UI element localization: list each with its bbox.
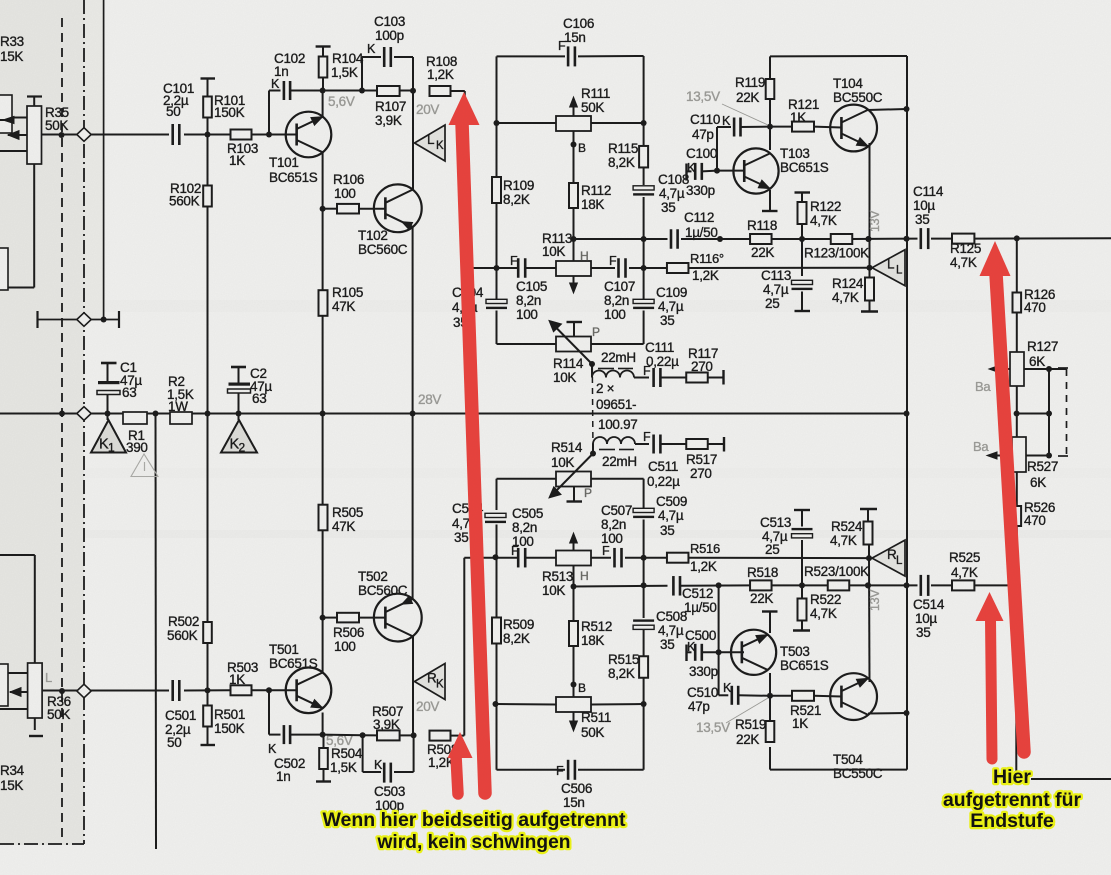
node B top [571,141,587,155]
svg-text:Ba: Ba [975,379,991,394]
label 5.6V bottom [326,733,353,748]
svg-text:C512: C512 [682,586,713,601]
wire T501 collector [320,713,326,738]
svg-text:T102: T102 [358,228,388,243]
svg-text:4,7K: 4,7K [830,533,857,548]
svg-text:C112: C112 [684,210,714,225]
resistor R123 [804,234,869,261]
wire T103 collector [769,127,771,150]
svg-text:330p: 330p [689,664,718,679]
svg-text:BC560C: BC560C [358,583,408,598]
svg-text:0,22µ: 0,22µ [646,354,679,369]
label 13V top [868,210,882,232]
capacitor C501 [165,680,196,750]
svg-text:R523/100K: R523/100K [804,564,869,579]
svg-text:10K: 10K [553,370,576,385]
svg-text:R522: R522 [810,592,841,607]
inductor L2 22mH [593,437,637,469]
svg-text:15n: 15n [564,30,586,45]
svg-text:100.97: 100.97 [598,417,638,432]
resistor R519 [735,693,774,747]
svg-text:100: 100 [604,307,626,322]
svg-text:BC550C: BC550C [833,90,883,105]
svg-text:8,2K: 8,2K [608,666,635,681]
svg-text:4,7K: 4,7K [832,290,859,305]
capacitor C503 [363,735,414,813]
node diamond bottom input [77,684,91,698]
resistor R33 partial box [0,95,14,133]
capacitor C510 [687,585,770,714]
resistor R521 [770,691,842,731]
resistor R102 [169,135,212,414]
svg-text:T503: T503 [780,644,810,659]
wire left dash-dot boundary [0,0,84,844]
svg-text:10K: 10K [542,583,565,598]
svg-text:C505: C505 [512,506,543,521]
svg-text:100: 100 [334,639,356,654]
resistor R117 [686,346,723,385]
svg-text:C105: C105 [516,279,547,294]
wire top input net [42,132,297,139]
potentiometer R513 [542,533,591,598]
capacitor C502 [268,690,323,784]
label transformer id [596,381,638,432]
wire R122-C113 link [801,239,803,276]
node diamond 28V [77,407,91,421]
annotation red arrow right long [980,241,1025,752]
bracket dashed [1058,368,1068,456]
svg-text:L: L [45,670,52,685]
potentiometer R527 [987,437,1058,490]
svg-text:22mH: 22mH [602,454,637,469]
svg-text:22K: 22K [751,245,774,260]
svg-text:22mH: 22mH [601,350,636,365]
svg-text:K: K [687,161,696,175]
junction coil bottom [590,451,596,457]
capacitor C507s [601,503,632,567]
svg-text:100: 100 [512,534,534,549]
transistor T501 [269,642,331,713]
svg-text:4,7K: 4,7K [951,565,978,580]
svg-text:50K: 50K [45,118,68,133]
svg-text:C110: C110 [690,112,720,127]
wire dashed coupling [591,366,594,452]
svg-text:aufgetrennt für: aufgetrennt für [943,789,1081,811]
svg-text:C103: C103 [374,14,405,29]
wire ground stub [155,414,158,850]
svg-text:100: 100 [334,186,356,201]
wire bottom loop right [770,710,910,770]
resistor R524 [830,509,877,558]
svg-text:R514: R514 [551,440,583,455]
node B bottom [571,681,587,695]
svg-text:K: K [722,114,731,128]
svg-text:R111: R111 [581,86,610,101]
svg-text:C114: C114 [913,184,944,199]
svg-text:R118: R118 [747,218,777,233]
resistor R505 [319,505,364,534]
svg-text:8,2K: 8,2K [503,631,530,646]
wire 28V rail [0,411,1020,417]
svg-text:F: F [510,254,518,268]
svg-text:R506: R506 [333,625,364,640]
resistor R517 [686,437,724,481]
svg-text:22K: 22K [750,591,773,606]
svg-text:13V: 13V [868,589,882,611]
svg-text:T501: T501 [269,642,299,657]
svg-text:Wenn hier beidseitig aufgetren: Wenn hier beidseitig aufgetrennt [323,809,626,831]
svg-text:1,2K: 1,2K [690,559,717,574]
svg-text:BC651S: BC651S [780,160,829,175]
svg-text:C501: C501 [165,708,196,723]
svg-text:6K: 6K [1030,475,1046,490]
svg-text:13,5V: 13,5V [686,89,720,104]
svg-text:T104: T104 [833,76,863,91]
capacitor C103 [362,14,413,91]
capacitor C514 [913,575,945,640]
svg-text:330p: 330p [686,183,715,198]
wire vertical bus x104 [103,0,105,320]
wire P loop top [497,343,644,345]
capacitor C500 [685,628,719,679]
svg-text:K: K [723,681,732,695]
resistor R104 [316,47,364,91]
svg-text:wird, kein schwingen: wird, kein schwingen [377,831,571,853]
potentiometer R514 [549,440,593,502]
transistor T101 [269,112,331,185]
marker RL [872,540,905,576]
svg-text:4,7K: 4,7K [950,255,977,270]
resistor R512 [569,587,612,685]
wire T503 emitter [762,612,778,634]
svg-text:Hier: Hier [993,766,1031,788]
resistor R2 [167,374,194,424]
svg-text:1,5K: 1,5K [331,65,358,80]
svg-text:1µ/50: 1µ/50 [685,225,718,240]
resistor R119 [735,75,774,130]
svg-text:C503: C503 [374,784,405,799]
wire T501 emitter [320,414,326,674]
svg-text:35: 35 [661,200,675,215]
svg-text:150K: 150K [214,105,245,120]
label Ba top [975,379,991,394]
wire 5.6V node [323,88,416,94]
svg-text:R112: R112 [581,183,611,198]
marker LK [415,125,446,161]
transistor T502 [358,569,422,641]
svg-text:63: 63 [252,391,266,406]
svg-text:R124: R124 [832,276,864,291]
capacitor C108 [633,172,689,271]
label 13.5V bottom [696,698,768,735]
svg-text:22K: 22K [736,732,759,747]
wire C106 loop [494,56,647,126]
svg-text:35: 35 [454,530,468,545]
svg-text:BC651S: BC651S [269,170,318,185]
svg-text:K: K [271,77,280,91]
svg-text:47K: 47K [332,299,355,314]
svg-text:C510: C510 [687,685,718,700]
resistor R503 [227,660,258,695]
label R34 [0,763,25,793]
svg-text:C100: C100 [686,146,717,161]
wire T504 emitter [865,558,871,682]
label 13V bottom [868,589,882,611]
svg-text:100: 100 [516,307,538,322]
resistor R126 [1013,238,1056,352]
svg-text:F: F [609,254,617,268]
wire T102 emitter [410,226,416,417]
svg-text:F: F [602,544,610,558]
svg-text:R518: R518 [747,565,778,580]
resistor R116 [667,251,724,283]
capacitor C104 [452,268,507,344]
svg-text:R501: R501 [214,707,245,722]
svg-text:K: K [436,140,444,152]
capacitor C1 [97,360,142,414]
svg-text:2 ×: 2 × [596,381,614,396]
svg-text:22K: 22K [736,90,759,105]
svg-text:R114: R114 [553,356,584,371]
resistor R109 [492,123,534,268]
capacitor C105 [510,254,547,322]
svg-text:Endstufe: Endstufe [970,810,1054,832]
resistor R518 [747,565,778,606]
svg-text:R105: R105 [332,285,363,300]
svg-text:R125: R125 [950,241,981,256]
capacitor C102 [269,51,323,135]
label R33 [0,34,24,64]
marker K1 [91,414,126,455]
svg-text:R104: R104 [332,51,364,66]
svg-text:BC651S: BC651S [780,658,829,673]
svg-text:4,7K: 4,7K [810,606,837,621]
wire B loop bottom [497,703,644,706]
wire T102 collector [412,91,414,190]
svg-text:10K: 10K [542,244,565,259]
resistor R34 partial box [0,664,8,706]
resistor R526 [1013,472,1056,585]
wire T502 collector [412,636,414,736]
svg-text:K: K [367,42,376,56]
capacitor C112 [670,210,718,249]
resistor R515 [608,630,648,704]
svg-text:15K: 15K [0,778,23,793]
resistor R507 [372,704,403,740]
svg-text:R119: R119 [735,75,765,90]
svg-text:C514: C514 [913,597,945,612]
svg-text:10K: 10K [551,455,574,470]
svg-text:T504: T504 [833,752,863,767]
svg-text:C108: C108 [658,172,689,187]
resistor R108 [426,54,457,96]
label 13.5V top [686,89,768,125]
svg-text:3,9K: 3,9K [375,113,402,128]
svg-text:270: 270 [690,466,712,481]
svg-text:BC651S: BC651S [269,656,318,671]
resistor R516 [667,541,720,574]
wire T104 emitter [866,143,872,268]
resistor R106 [323,172,386,214]
svg-text:18K: 18K [581,197,604,212]
svg-text:5,6V: 5,6V [328,94,355,109]
svg-text:R107: R107 [375,99,406,114]
svg-text:R123/100K: R123/100K [804,246,869,261]
svg-text:H: H [580,569,588,583]
resistor R522 [793,585,841,630]
svg-text:R527: R527 [1027,459,1058,474]
svg-text:C506: C506 [561,781,592,796]
capacitor C511 [635,430,686,489]
svg-text:35: 35 [916,625,930,640]
svg-text:09651-: 09651- [596,397,636,412]
svg-text:35: 35 [915,212,929,227]
svg-text:R517: R517 [686,452,717,467]
svg-text:C106: C106 [563,16,594,31]
inductor L1 22mH [592,350,636,378]
resistor R509 [492,557,534,704]
wire top loop right [770,56,910,112]
capacitor C513 [760,510,813,557]
wire rail1 bottom [571,582,1020,589]
svg-text:20V: 20V [416,102,439,117]
resistor R33 lower partial box [0,248,8,290]
svg-text:4,7µ: 4,7µ [658,508,684,523]
annotation yellow text left [323,809,626,853]
svg-text:R502: R502 [168,614,199,629]
svg-text:47p: 47p [688,699,710,714]
svg-text:1µ/50: 1µ/50 [684,600,717,615]
wire R127 to bracket [1017,369,1067,455]
svg-text:R513: R513 [542,569,573,584]
svg-text:R524: R524 [831,519,863,534]
resistor R107 [375,86,406,128]
warning triangle [131,454,158,477]
wire T503 base node [716,649,744,655]
capacitor C109 [633,268,687,344]
label 20V top [416,102,439,117]
potentiometer R36 [0,555,71,736]
svg-text:3,9K: 3,9K [373,717,400,732]
svg-text:T103: T103 [780,146,810,161]
svg-text:1,5K: 1,5K [330,760,357,775]
resistor R506 [323,613,386,654]
wire H rail bottom [464,554,872,561]
svg-text:2: 2 [239,441,246,455]
wire T502 emitter [412,414,414,601]
svg-text:13V: 13V [868,210,882,232]
svg-text:390: 390 [126,440,148,455]
svg-text:R509: R509 [503,617,534,632]
svg-text:560K: 560K [169,194,200,209]
capacitor C512 [672,576,716,615]
svg-text:47K: 47K [332,519,355,534]
svg-text:C109: C109 [656,285,687,300]
svg-text:R504: R504 [331,746,363,761]
svg-text:R115: R115 [608,141,638,156]
capacitor C508 [633,555,687,652]
svg-text:R122: R122 [810,199,841,214]
node diamond top input [77,128,91,142]
svg-text:10µ: 10µ [913,198,935,213]
capacitor C505s [511,506,543,567]
wire T101 emitter [320,152,326,417]
svg-text:1,2K: 1,2K [692,268,719,283]
svg-text:R33: R33 [0,34,24,49]
svg-text:R109: R109 [503,178,534,193]
svg-text:560K: 560K [167,628,198,643]
wire 5.6V node bottom [323,732,417,738]
svg-text:8,2n: 8,2n [604,293,629,308]
svg-text:C513: C513 [760,515,791,530]
wire T101 collector [320,88,326,118]
wire T503 collector [769,673,771,696]
svg-text:8,2n: 8,2n [512,520,537,535]
resistor R502 [167,414,212,691]
svg-text:T502: T502 [358,569,388,584]
svg-text:50K: 50K [581,100,604,115]
junction coil top [589,361,595,367]
resistor R101 [201,79,246,135]
potentiometer R35 [0,97,69,288]
wire T104 collector [868,109,907,110]
potentiometer R511 [556,685,611,741]
capacitor C107 [604,254,635,322]
svg-text:50: 50 [167,735,181,750]
label 5.6V top [328,94,355,109]
svg-text:R512: R512 [581,619,612,634]
svg-text:R34: R34 [0,763,25,778]
svg-text:R116°: R116° [690,251,724,266]
svg-text:35: 35 [660,523,674,538]
svg-text:BC560C: BC560C [358,242,408,257]
svg-text:H: H [580,249,588,263]
svg-text:C507: C507 [601,503,632,518]
transistor T104 [830,76,883,151]
svg-text:P: P [592,325,600,339]
capacitor C111 [634,340,686,387]
svg-text:100p: 100p [375,28,404,43]
wire big vertical [906,109,908,770]
svg-text:150K: 150K [214,721,245,736]
wire C506 loop [493,701,647,770]
svg-text:63: 63 [122,385,136,400]
svg-text:8,2n: 8,2n [601,517,626,532]
svg-text:Ba: Ba [973,439,989,454]
resistor R122 [795,193,842,240]
svg-text:C111: C111 [645,340,674,355]
svg-text:35: 35 [660,637,674,652]
marker LL [872,250,905,286]
resistor R1 [123,412,148,455]
svg-text:K: K [374,758,383,772]
wire R508 to filter [451,558,465,736]
svg-text:R515: R515 [608,652,639,667]
wire T504 collector [868,712,907,715]
svg-text:470: 470 [1024,300,1046,315]
annotation red arrow left short [448,732,473,794]
svg-text:K: K [268,742,277,756]
svg-text:R505: R505 [332,505,363,520]
svg-text:C107: C107 [604,279,635,294]
svg-text:BC550C: BC550C [833,766,883,781]
resistor R105 [319,285,364,316]
wire T103 emitter [762,190,778,211]
resistor R112 [569,145,611,240]
potentiometer R113 [542,231,591,293]
capacitor C110 [690,112,770,171]
potentiometer R114 [549,321,600,386]
